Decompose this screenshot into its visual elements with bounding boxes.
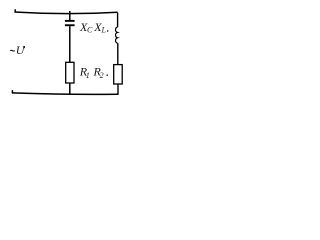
ink speck after R2 label: [107, 74, 108, 76]
label XC: [79, 20, 93, 35]
wire: bottom-left terminal stub: [11, 90, 13, 93]
inductor XL: three arcs bulging left: [116, 27, 118, 43]
svg-text:C: C: [87, 26, 93, 35]
capacitor XC bottom plate: [65, 24, 75, 26]
wire: top-left terminal stub: [14, 9, 16, 12]
label R2: [93, 65, 104, 80]
wire: right side middle segment: [117, 43, 119, 64]
svg-text:L: L: [101, 26, 107, 35]
capacitor XC top plate: [65, 20, 75, 22]
ink speck after XL label: [107, 30, 108, 32]
wire: resistor R1 to bottom wire: [69, 83, 71, 94]
svg-text:1: 1: [86, 71, 90, 80]
label XL: [93, 20, 106, 35]
svg-text:2: 2: [100, 71, 104, 80]
resistor R1 body: [66, 62, 74, 83]
wire: right side bottom segment: [117, 84, 119, 95]
label R1: [79, 65, 90, 80]
wire: capacitor branch from top wire (overshoots junction): [69, 11, 71, 20]
label ~U (source voltage, U with dot): [10, 43, 26, 57]
wire: capacitor to resistor R1: [69, 26, 71, 62]
svg-text:U: U: [16, 43, 26, 57]
wire: right side top segment: [117, 13, 119, 27]
resistor R2 body: [114, 65, 123, 84]
wire: top horizontal: [15, 12, 118, 14]
wire: bottom horizontal: [12, 93, 118, 94]
